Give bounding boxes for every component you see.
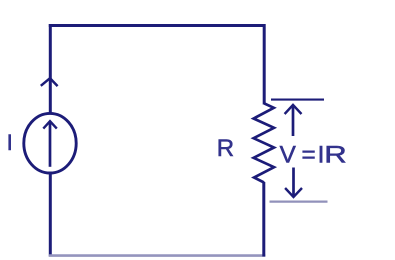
current source arrow shaft — [49, 121, 52, 167]
wire right vertical upper — [263, 24, 266, 105]
voltage up arrowhead — [285, 105, 302, 114]
svg-text:=: = — [302, 141, 316, 168]
voltage up arrow shaft — [292, 105, 295, 136]
resistor R zigzag — [254, 104, 274, 183]
voltage marker bottom reference line — [270, 201, 328, 203]
wire left vertical upper — [49, 24, 52, 115]
current direction arrowhead on left wire — [41, 78, 58, 86]
voltage down arrow shaft — [292, 168, 295, 197]
wire right vertical lower — [262, 182, 265, 257]
svg-text:V: V — [280, 141, 297, 168]
current source I1 circle — [24, 113, 76, 173]
voltage marker top reference line — [271, 99, 324, 101]
label V=IR — [280, 141, 347, 169]
wire bottom horizontal — [49, 254, 265, 257]
wire left vertical lower — [49, 172, 52, 257]
svg-text:R: R — [217, 135, 234, 162]
current source arrowhead — [43, 121, 57, 128]
wire top horizontal — [49, 24, 266, 27]
svg-text:R: R — [324, 141, 346, 168]
voltage down arrowhead — [285, 188, 302, 197]
svg-text:I: I — [7, 130, 13, 155]
